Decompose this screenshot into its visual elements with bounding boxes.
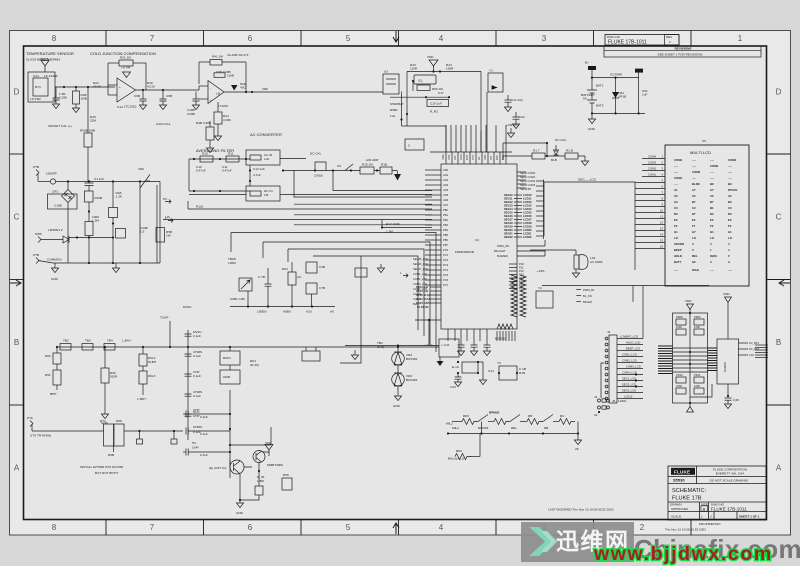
svg-text:OHM: OHM xyxy=(710,254,717,258)
title block bottom right xyxy=(668,466,766,520)
svg-text:R50: R50 xyxy=(45,354,51,358)
svg-text:REV: REV xyxy=(666,35,673,39)
svg-text:R101: R101 xyxy=(196,205,204,209)
MCU top pin bus xyxy=(430,151,512,153)
svg-text:COM4: COM4 xyxy=(648,155,657,159)
bottom comb block xyxy=(497,324,513,329)
comb U5b xyxy=(511,275,526,317)
wire to beeper xyxy=(530,240,576,256)
svg-text:MIL2: MIL2 xyxy=(446,422,453,426)
svg-text:R5B: R5B xyxy=(108,453,114,457)
ground dc cal xyxy=(584,156,586,161)
svg-text:C5B C20B: C5B C20B xyxy=(216,70,231,74)
svg-text:D: D xyxy=(14,88,20,97)
svg-text:SEG3_LCD: SEG3_LCD xyxy=(622,389,636,393)
svg-text:11: 11 xyxy=(660,215,663,219)
svg-text:1MB: 1MB xyxy=(81,97,87,101)
svg-text:PTB: PTB xyxy=(33,165,39,169)
svg-text:32: 32 xyxy=(594,413,598,417)
ground VR4 xyxy=(397,386,399,396)
svg-text:BLNK: BLNK xyxy=(692,182,700,186)
svg-text:G7: G7 xyxy=(692,230,696,234)
crystal load cap C22 xyxy=(515,112,517,117)
svg-text:TB3: TB3 xyxy=(85,339,91,343)
op-amp U1B xyxy=(208,81,224,104)
svg-text:LT1097: LT1097 xyxy=(218,104,229,108)
U6 bottom cap xyxy=(727,384,729,396)
svg-text:AVSS VLC0: AVSS VLC0 xyxy=(416,293,431,297)
FLUKE logo xyxy=(670,468,760,519)
svg-text:G1: G1 xyxy=(710,230,714,234)
svg-text:REVISIONS: REVISIONS xyxy=(675,47,692,51)
svg-text:LCD12: LCD12 xyxy=(624,395,633,399)
reference box U3 xyxy=(383,74,399,94)
svg-text:C9/1B: C9/1B xyxy=(314,174,323,178)
pad row 1 xyxy=(598,399,610,402)
filter bottom rail xyxy=(189,190,250,192)
svg-text:CHP: CHP xyxy=(193,408,200,412)
wire to R54 xyxy=(230,444,271,446)
svg-text:A/D AMP: A/D AMP xyxy=(366,158,379,162)
svg-text:VRF: VRF xyxy=(262,87,268,91)
svg-text:4: 4 xyxy=(439,34,444,43)
svg-text:CA1: CA1 xyxy=(33,74,39,78)
ground Q1 xyxy=(236,503,243,508)
svg-text:COMMON: COMMON xyxy=(47,258,61,262)
svg-text:+ C40: + C40 xyxy=(424,343,433,347)
svg-text:L.5RH: L.5RH xyxy=(137,397,146,401)
svg-text:GAIN CAL: GAIN CAL xyxy=(156,122,171,126)
svg-text:RST: RST xyxy=(465,154,469,160)
resistor R94 xyxy=(291,262,293,272)
ground R62 xyxy=(101,414,108,419)
svg-text:C21 22p: C21 22p xyxy=(511,98,523,102)
svg-text:A2: A2 xyxy=(728,194,732,198)
svg-text:PA1: PA1 xyxy=(501,155,505,160)
diode D51 xyxy=(615,78,617,114)
node junction xyxy=(63,86,65,88)
capacitor C6B xyxy=(162,90,164,99)
op-amp U1A xyxy=(117,78,136,102)
svg-text:COM4_LCD: COM4_LCD xyxy=(622,371,637,375)
pack center line xyxy=(689,313,691,403)
pack resistors bottom-right xyxy=(694,377,704,383)
svg-text:10: 10 xyxy=(660,209,664,213)
svg-text:HOLD: HOLD xyxy=(674,254,682,258)
svg-text:BLB: BLB xyxy=(551,158,557,162)
wire LCD to J2 xyxy=(642,286,644,339)
svg-text:DIAG: DIAG xyxy=(692,268,699,272)
svg-text:0.1uF: 0.1uF xyxy=(193,394,201,398)
svg-text:0.1uF: 0.1uF xyxy=(200,453,208,457)
svg-text:SEG16: SEG16 xyxy=(504,214,513,218)
svg-text:MULTI-LCD: MULTI-LCD xyxy=(690,150,711,155)
svg-text:PC5: PC5 xyxy=(443,273,449,277)
dense label block C xyxy=(523,193,532,239)
bus vertical right of MCU xyxy=(543,180,545,240)
svg-text:B3: B3 xyxy=(728,200,732,204)
svg-text:16: 16 xyxy=(660,245,664,249)
svg-text:7: 7 xyxy=(150,523,155,532)
watermark grey box xyxy=(521,522,634,562)
svg-text:Y1: Y1 xyxy=(489,69,493,73)
top zone ticks xyxy=(106,31,691,47)
power flag AD xyxy=(397,171,399,175)
filter top rail xyxy=(189,158,250,160)
svg-text:LCD15: LCD15 xyxy=(523,211,532,215)
svg-text:PC: PC xyxy=(163,197,168,201)
battery bottom wire xyxy=(592,112,645,114)
svg-text:PB7: PB7 xyxy=(443,243,448,247)
resistor TB3 xyxy=(82,344,93,351)
svg-text:----: ---- xyxy=(728,268,732,272)
svg-text:----: ---- xyxy=(674,268,678,272)
svg-text:COM4: COM4 xyxy=(728,158,737,162)
svg-text:A7: A7 xyxy=(710,188,714,192)
ground common left xyxy=(54,263,56,268)
side zone ticks xyxy=(10,154,791,405)
svg-text:SEG___LCD: SEG___LCD xyxy=(578,178,597,182)
ground flag LX xyxy=(479,380,486,385)
bus two xyxy=(390,96,449,98)
cap C43 xyxy=(457,373,459,377)
svg-text:LAST MODIFIED:Thu Nov 13 10:06: LAST MODIFIED:Thu Nov 13 10:06:52:52 200… xyxy=(548,508,614,512)
feedback resistor R21 xyxy=(107,63,109,95)
svg-text:SEG19: SEG19 xyxy=(504,225,513,229)
svg-text:U3: U3 xyxy=(384,70,388,74)
svg-text:SHEET 1 OF 1: SHEET 1 OF 1 xyxy=(739,515,760,519)
svg-text:BZX384: BZX384 xyxy=(406,357,417,361)
svg-text:R15 1M: R15 1M xyxy=(362,163,373,167)
DC CAL loop xyxy=(315,162,326,171)
switch S1B xyxy=(139,182,141,264)
svg-text:AN4: AN4 xyxy=(443,188,449,192)
svg-text:Y2: Y2 xyxy=(538,286,542,290)
svg-text:J4: J4 xyxy=(594,395,598,399)
svg-text:----: ---- xyxy=(728,170,732,174)
regulator box U7 xyxy=(414,75,436,84)
svg-text:FLUKE 17B: FLUKE 17B xyxy=(672,496,702,502)
svg-text:C10B: C10B xyxy=(54,204,62,208)
svg-text:DRAWN: DRAWN xyxy=(670,503,682,507)
wire U1A inputs xyxy=(108,84,117,86)
svg-text:AC_BAT: AC_BAT xyxy=(749,341,759,345)
pack resistors bottom-left xyxy=(676,377,686,383)
centerline arrow bottom xyxy=(393,523,399,534)
filter left vertical xyxy=(188,159,190,191)
svg-text:PC2: PC2 xyxy=(443,258,449,262)
svg-text:LIN: LIN xyxy=(165,215,170,219)
svg-text:C38 0.1uF: C38 0.1uF xyxy=(416,285,429,289)
svg-text:1K 2432B: 1K 2432B xyxy=(44,74,58,78)
svg-text:COM3: COM3 xyxy=(710,164,719,168)
svg-text:100M: 100M xyxy=(228,261,236,265)
guard box line 1 xyxy=(231,233,436,353)
LCD pin numbers xyxy=(660,155,664,249)
svg-text:SLBH: SLBH xyxy=(148,360,156,364)
svg-text:SEG4 BP: SEG4 BP xyxy=(520,187,531,191)
chain drop2 xyxy=(479,434,481,457)
svg-text:D7: D7 xyxy=(692,212,696,216)
pack cross wires xyxy=(673,348,708,372)
svg-text:C43: C43 xyxy=(450,385,456,389)
LCD bus corner wire xyxy=(544,182,635,270)
svg-text:R11: R11 xyxy=(228,152,234,156)
svg-text:LCD10: LCD10 xyxy=(523,193,532,197)
svg-text:C17: C17 xyxy=(438,91,444,95)
svg-text:1uF: 1uF xyxy=(264,157,269,161)
pack resistors top-right xyxy=(694,319,704,325)
svg-text:12: 12 xyxy=(660,221,664,225)
resistor R10B xyxy=(85,191,94,202)
MCU external net labels xyxy=(413,257,428,306)
svg-text:SEE SHEET 1 FOR REVISIONS: SEE SHEET 1 FOR REVISIONS xyxy=(658,53,703,57)
battery top wire xyxy=(592,77,639,79)
svg-text:XOU: XOU xyxy=(459,154,463,160)
svg-text:MTB: MTB xyxy=(35,232,42,236)
svg-text:MIL2: MIL2 xyxy=(452,426,459,430)
bus LIN xyxy=(163,219,432,221)
row wire xyxy=(57,346,439,348)
feedback resistor R41 xyxy=(198,62,200,84)
svg-text:R55: R55 xyxy=(283,473,289,477)
svg-text:PTA: PTA xyxy=(27,416,34,420)
pwm wires xyxy=(517,246,545,256)
branch R1B column xyxy=(112,182,114,208)
svg-text:LCD12: LCD12 xyxy=(523,200,532,204)
svg-text:ICL: ICL xyxy=(418,79,423,83)
svg-text:INT: INT xyxy=(489,155,493,160)
svg-text:VR2: VR2 xyxy=(138,167,144,171)
svg-text:A2: A2 xyxy=(674,194,678,198)
svg-text:14: 14 xyxy=(660,233,664,237)
bus segment right y194 xyxy=(280,194,432,196)
vertical 1.5KH wire xyxy=(229,347,231,351)
svg-text:AN7: AN7 xyxy=(443,203,449,207)
svg-text:COM2_LCD: COM2_LCD xyxy=(413,277,427,281)
svg-text:DC CAL: DC CAL xyxy=(310,152,322,156)
svg-text:APPROVED: APPROVED xyxy=(671,507,689,511)
svg-text:COM1_LCD: COM1_LCD xyxy=(413,272,427,276)
svg-text:1W: 1W xyxy=(166,234,171,238)
power flag Q2 xyxy=(265,445,273,451)
below-MCU stubs xyxy=(448,329,487,345)
ground battery xyxy=(591,113,593,119)
svg-text:R1.B: R1.B xyxy=(566,149,573,153)
svg-text:C6B: C6B xyxy=(166,94,172,98)
svg-text:SEG1_LCD: SEG1_LCD xyxy=(622,377,636,381)
svg-text:DC CAL: DC CAL xyxy=(555,138,567,142)
svg-text:VA-10B VA=2.5: VA-10B VA=2.5 xyxy=(227,53,249,57)
svg-text:43C: 43C xyxy=(240,86,246,90)
DC CAL box2 xyxy=(405,139,424,150)
svg-text:U5: U5 xyxy=(702,139,706,143)
svg-text:LTC1052: LTC1052 xyxy=(124,105,137,109)
svg-text:B+: B+ xyxy=(585,61,589,65)
resistor TB2 xyxy=(60,344,71,351)
guard box line 3 xyxy=(288,249,424,336)
svg-text:AC: AC xyxy=(297,275,302,279)
svg-text:FLUKE 17B-1011: FLUKE 17B-1011 xyxy=(608,40,647,46)
svg-text:1.8M: 1.8M xyxy=(257,479,264,483)
svg-text:LCD13: LCD13 xyxy=(523,204,532,208)
svg-text:BAT1: BAT1 xyxy=(596,84,604,88)
bus PTA rail right xyxy=(124,430,183,432)
svg-text:PWM_BL: PWM_BL xyxy=(583,288,595,292)
svg-text:COM3: COM3 xyxy=(648,161,657,165)
svg-text:A3: A3 xyxy=(674,200,678,204)
svg-text:E0: E0 xyxy=(710,218,714,222)
svg-text:A: A xyxy=(14,464,20,473)
svg-text:8: 8 xyxy=(52,34,57,43)
svg-text:S5530: S5530 xyxy=(673,478,685,483)
inner drawing frame xyxy=(24,46,767,520)
svg-text:LB: LB xyxy=(216,92,220,96)
svg-text:A2U: A2U xyxy=(306,310,312,314)
zener VR4 xyxy=(397,365,399,373)
resistor R50B vertical xyxy=(84,133,92,147)
svg-text:6: 6 xyxy=(248,34,253,43)
chain right ground xyxy=(577,422,579,441)
svg-text:G1: G1 xyxy=(728,230,732,234)
crystal load cap C21 xyxy=(507,95,509,100)
svg-text:BC: BC xyxy=(728,182,732,186)
comb wires B-C xyxy=(514,195,522,237)
resistor R51 vertical xyxy=(53,370,61,385)
svg-text:C.7B: C.7B xyxy=(258,275,265,279)
svg-text:+ C41: + C41 xyxy=(441,343,450,347)
svg-text:Y3: Y3 xyxy=(497,361,501,365)
svg-text:EVERETT, WA, USA: EVERETT, WA, USA xyxy=(716,471,746,475)
U6 power flag xyxy=(727,303,729,340)
thermistor RT1 block xyxy=(28,72,55,102)
svg-text:110B: 110B xyxy=(227,74,234,78)
wire U1B inputs xyxy=(199,85,208,87)
svg-text:AN5: AN5 xyxy=(443,193,449,197)
svg-text:PC1: PC1 xyxy=(443,253,449,257)
cap CHP horizontal xyxy=(183,413,186,415)
svg-text:A: A xyxy=(776,464,782,473)
resistor R62 vertical xyxy=(104,347,106,356)
svg-text:MMBT3906: MMBT3906 xyxy=(267,463,283,467)
svg-text:AV: AV xyxy=(477,156,481,160)
svg-text:R1B: R1B xyxy=(381,163,387,167)
svg-text:E0: E0 xyxy=(728,218,732,222)
svg-text:B: B xyxy=(703,506,706,511)
MCU lower-left pin labels xyxy=(416,285,431,309)
svg-text:CHMS: CHMS xyxy=(193,425,202,429)
svg-text:910R: 910R xyxy=(223,375,231,379)
svg-text:AN1: AN1 xyxy=(443,173,449,177)
svg-text:J3: J3 xyxy=(612,399,616,403)
beeper LS1 xyxy=(575,250,577,255)
svg-text:110R: 110R xyxy=(410,67,418,71)
net stubs right of bus xyxy=(583,288,595,304)
svg-text:SEG21: SEG21 xyxy=(504,232,513,236)
svg-text:BC: BC xyxy=(710,182,714,186)
svg-text:B7: B7 xyxy=(710,200,714,204)
guard line under harness xyxy=(542,285,709,287)
chain switch arm c xyxy=(543,415,553,422)
svg-text:AN0: AN0 xyxy=(443,168,449,172)
svg-text:RT1: RT1 xyxy=(35,85,41,89)
svg-text:R94: R94 xyxy=(282,267,288,271)
svg-text:LCD16: LCD16 xyxy=(523,214,532,218)
svg-text:COM2: COM2 xyxy=(648,167,657,171)
svg-text:CHP: CHP xyxy=(193,414,200,418)
svg-text:----: ---- xyxy=(692,158,696,162)
svg-text:B7: B7 xyxy=(692,200,696,204)
box R62C xyxy=(220,370,240,384)
svg-text:DO NOT SCALE DRAWING: DO NOT SCALE DRAWING xyxy=(710,479,749,483)
svg-text:0.47uF: 0.47uF xyxy=(222,169,232,173)
svg-text:GND: GND xyxy=(393,404,401,408)
svg-text:R17 100K: R17 100K xyxy=(386,222,401,226)
svg-text:SCALE: SCALE xyxy=(671,515,681,519)
svg-text:J2: J2 xyxy=(607,330,611,334)
svg-text:----: ---- xyxy=(710,176,714,180)
svg-text:CHP: CHP xyxy=(192,446,199,450)
svg-text:(N-30): (N-30) xyxy=(250,363,259,367)
crystal box Y1 xyxy=(488,73,503,92)
svg-text:C10B: C10B xyxy=(59,96,67,100)
svg-text:R51: R51 xyxy=(45,373,51,377)
svg-text:0.1uF: 0.1uF xyxy=(193,334,201,338)
resistor R1B xyxy=(109,208,118,218)
svg-text:F0: F0 xyxy=(728,224,732,228)
box C7B2 xyxy=(306,283,317,294)
svg-text:COM1: COM1 xyxy=(648,173,657,177)
J2 net labels xyxy=(620,335,641,399)
relay box S10 xyxy=(302,351,320,361)
svg-text:SEG26_LCD: SEG26_LCD xyxy=(413,262,428,266)
ribbon hatch left xyxy=(658,346,673,374)
svg-text:Thu Nov 13 10:06:52:52 2003: Thu Nov 13 10:06:52:52 2003 xyxy=(665,528,706,532)
svg-text:V: V xyxy=(692,242,694,246)
svg-text:SCHEMATIC:: SCHEMATIC: xyxy=(672,488,707,494)
svg-text:43.2K: 43.2K xyxy=(93,85,102,89)
resistor pack block xyxy=(673,313,708,403)
resistor R19 xyxy=(355,268,367,277)
svg-text:V: V xyxy=(710,260,712,264)
chain switch arm b xyxy=(510,415,520,422)
bus PB10 xyxy=(188,208,432,210)
svg-text:BKLIGHT: BKLIGHT xyxy=(494,249,506,253)
svg-text:BZX384: BZX384 xyxy=(406,378,417,382)
svg-text:----: ---- xyxy=(728,164,732,168)
svg-text:0.1uF: 0.1uF xyxy=(200,432,208,436)
svg-text:CAP1 CAP2: CAP1 CAP2 xyxy=(416,301,431,305)
svg-text:----: ---- xyxy=(710,158,714,162)
svg-text:SEG0 COM0: SEG0 COM0 xyxy=(520,171,536,175)
svg-text:GND: GND xyxy=(236,511,244,515)
svg-text:LCD11: LCD11 xyxy=(523,197,532,201)
svg-text:100K: 100K xyxy=(676,325,682,329)
resistor R3 vertical xyxy=(75,87,77,91)
svg-text:SEG25_LCD: SEG25_LCD xyxy=(413,257,428,261)
gain cal rail xyxy=(230,306,335,308)
DC IN box xyxy=(246,186,280,201)
svg-text:0R1B: 0R1B xyxy=(619,95,627,99)
LCD left labels xyxy=(648,155,657,177)
svg-text:PR09: PR09 xyxy=(694,315,701,319)
svg-text:C7B: C7B xyxy=(319,286,325,290)
svg-text:BKLED: BKLED xyxy=(583,300,592,304)
corner wire xyxy=(402,126,447,152)
caps column C30-C34 xyxy=(185,330,203,440)
svg-text:CR1: CR1 xyxy=(52,190,58,194)
capacitor C51 xyxy=(638,78,640,114)
